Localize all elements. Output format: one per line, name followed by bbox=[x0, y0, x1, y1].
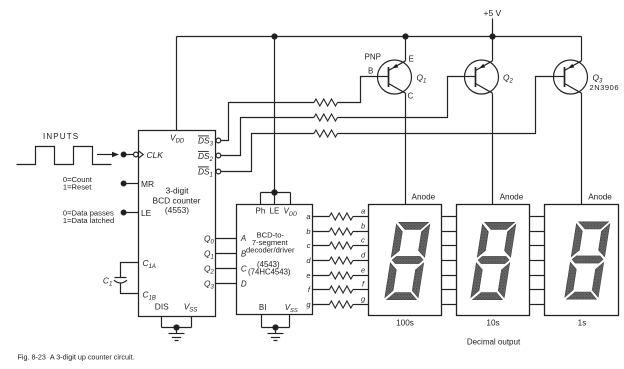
wire DS2 to R2 bbox=[221, 118, 314, 156]
node decoder top bar bbox=[261, 192, 291, 194]
ground (decoder) bbox=[268, 334, 284, 341]
counter pin label DS2 bbox=[198, 151, 214, 163]
svg-text:1=Reset: 1=Reset bbox=[63, 183, 92, 192]
svg-text:PNP: PNP bbox=[365, 53, 381, 62]
wire Q3 to D bbox=[216, 283, 237, 285]
svg-text:3-digit: 3-digit bbox=[166, 185, 189, 195]
svg-text:b: b bbox=[306, 227, 310, 236]
svg-text:LE: LE bbox=[270, 206, 280, 215]
wire VSS to ground bbox=[191, 317, 193, 328]
wire segment e + resistor Re bbox=[313, 272, 545, 279]
svg-text:C: C bbox=[241, 264, 247, 273]
decoder pin labels a-g inside right edge bbox=[306, 212, 311, 309]
digit of display DIS1 bbox=[384, 222, 430, 299]
svg-text:CLK: CLK bbox=[147, 150, 164, 160]
node counter ground junction bbox=[162, 327, 192, 329]
wire segment c + resistor Rc bbox=[313, 242, 545, 249]
node LE terminal bbox=[121, 210, 126, 215]
ground (counter) bbox=[169, 334, 185, 341]
svg-text:BI: BI bbox=[259, 303, 267, 312]
wire DS1 to R3 bbox=[221, 134, 314, 172]
node decoder ground junction bbox=[262, 327, 290, 329]
wire R2 to Q2 base bbox=[338, 77, 466, 118]
svg-text:Anode: Anode bbox=[500, 192, 524, 201]
node MR terminal bbox=[121, 181, 126, 186]
DS2 output bubble bbox=[216, 153, 221, 158]
digit of display DIS3 bbox=[564, 222, 610, 299]
wire C1A bbox=[121, 263, 139, 278]
wire +5V supply rail bbox=[177, 36, 582, 38]
svg-text:Q1: Q1 bbox=[417, 73, 427, 85]
CLK inversion bubble bbox=[134, 152, 139, 157]
transistor Q1 bbox=[377, 34, 412, 205]
wire Q2 emitter to rail bbox=[492, 37, 494, 61]
wire LE stub bbox=[274, 193, 276, 205]
svg-text:Decimal output: Decimal output bbox=[467, 338, 521, 347]
svg-text:Ph: Ph bbox=[256, 206, 266, 215]
transistor Q2 bbox=[464, 37, 499, 205]
svg-text:100s: 100s bbox=[396, 318, 414, 327]
wire DIS to ground bbox=[161, 317, 163, 328]
svg-text:d: d bbox=[361, 251, 366, 260]
wire Q2 to C bbox=[216, 268, 237, 270]
wire LE bbox=[126, 212, 139, 214]
wire CLK bbox=[126, 154, 134, 156]
svg-text:e: e bbox=[361, 266, 365, 275]
wire R3 to Q3 base bbox=[338, 77, 554, 134]
svg-text:MR: MR bbox=[141, 179, 154, 189]
display DIS1 (100s) body bbox=[369, 205, 442, 316]
wire Q1 collector to display anode bbox=[405, 93, 407, 204]
svg-text:INPUTS: INPUTS bbox=[43, 132, 79, 141]
svg-text:Q2: Q2 bbox=[503, 73, 514, 85]
wire decoder supply drop bbox=[274, 37, 276, 193]
svg-text:DIS: DIS bbox=[155, 302, 169, 312]
svg-text:b: b bbox=[361, 222, 365, 231]
wire segment a + resistor Ra bbox=[313, 213, 545, 220]
resistor R2 bbox=[314, 114, 338, 121]
wire Q1 emitter to rail bbox=[405, 37, 407, 61]
svg-text:a: a bbox=[361, 207, 365, 216]
digit of display DIS2 bbox=[470, 222, 516, 299]
svg-text:D: D bbox=[241, 279, 247, 288]
counter pin label DS1 bbox=[198, 166, 213, 178]
wire Ph stub bbox=[260, 193, 262, 205]
wire segment f + resistor Rf bbox=[313, 286, 545, 293]
decoder U2 (4543) body bbox=[237, 205, 313, 315]
transistor Q3 bbox=[553, 37, 588, 205]
svg-text:BCD counter: BCD counter bbox=[153, 195, 201, 205]
counter pin label DS3 bbox=[198, 135, 214, 147]
wire MR bbox=[126, 183, 139, 185]
wire VSS decoder to ground bbox=[289, 315, 291, 328]
svg-text:A: A bbox=[240, 234, 246, 243]
svg-text:+5 V: +5 V bbox=[484, 8, 502, 18]
svg-text:1=Data latched: 1=Data latched bbox=[63, 216, 114, 225]
wire segment b + resistor Rb bbox=[313, 228, 545, 235]
svg-text:f: f bbox=[362, 280, 365, 289]
svg-text:c: c bbox=[307, 241, 311, 250]
svg-text:E: E bbox=[409, 55, 414, 64]
svg-text:C: C bbox=[408, 92, 414, 101]
DS3 output bubble bbox=[216, 138, 221, 143]
wire R1 to Q1 base bbox=[338, 77, 378, 103]
svg-text:B: B bbox=[368, 67, 373, 76]
display DIS2 (10s) body bbox=[457, 205, 530, 316]
counter U1 (4553) body bbox=[139, 131, 216, 317]
svg-text:Anode: Anode bbox=[588, 192, 612, 201]
svg-text:(74HC4543): (74HC4543) bbox=[248, 268, 291, 277]
wire VDD stub from counter to rail bbox=[176, 37, 178, 131]
segment letters near display bbox=[361, 207, 366, 304]
wire BI to ground bbox=[261, 315, 263, 328]
svg-text:a: a bbox=[306, 212, 310, 221]
resistor R1 bbox=[314, 99, 338, 106]
svg-text:2N3906: 2N3906 bbox=[590, 83, 620, 92]
wire VDD stub decoder bbox=[290, 193, 292, 205]
svg-text:C1: C1 bbox=[103, 275, 112, 287]
svg-text:e: e bbox=[306, 271, 310, 280]
svg-text:10s: 10s bbox=[486, 318, 499, 327]
input square wave bbox=[17, 147, 112, 165]
wire Q2 collector to display anode bbox=[492, 93, 494, 204]
wire Q1 to B bbox=[216, 253, 237, 255]
display DIS3 (1s) body bbox=[545, 205, 619, 316]
wire Q3 emitter to rail bbox=[581, 37, 583, 61]
svg-text:decoder/driver: decoder/driver bbox=[246, 246, 295, 255]
svg-text:(4553): (4553) bbox=[165, 205, 189, 215]
svg-text:Anode: Anode bbox=[412, 192, 436, 201]
node CLK terminal bbox=[121, 152, 126, 157]
svg-text:Fig. 8-23 A 3-digit up counte: Fig. 8-23 A 3-digit up counter circuit. bbox=[18, 352, 135, 361]
wire Q3 collector to display anode bbox=[581, 93, 583, 204]
wire DS3 to R1 bbox=[221, 103, 314, 141]
CLK edge chevron bbox=[139, 151, 144, 158]
svg-text:g: g bbox=[361, 295, 366, 304]
capacitor C1 bbox=[115, 277, 127, 279]
node +5V entry bbox=[492, 19, 494, 37]
wire C1B bbox=[121, 283, 139, 294]
DS1 output bubble bbox=[216, 169, 221, 174]
resistor R3 bbox=[314, 130, 338, 137]
wire segment d + resistor Rd bbox=[313, 257, 545, 264]
svg-text:LE: LE bbox=[141, 208, 152, 218]
wire segment g + resistor Rg bbox=[313, 301, 545, 308]
wire Q0 to A bbox=[216, 238, 237, 240]
input arrow bbox=[97, 154, 112, 156]
svg-text:1s: 1s bbox=[578, 318, 587, 327]
svg-text:c: c bbox=[361, 236, 365, 245]
